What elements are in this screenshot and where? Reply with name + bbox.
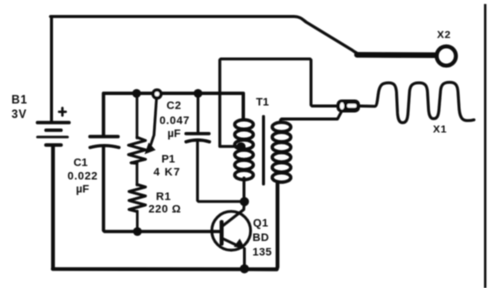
wire: X1 flexible lead squiggle bbox=[360, 82, 474, 122]
wire: battery + up to top rail, across, diagonal down to X2 lead bbox=[51, 17, 361, 123]
svg-text:µF: µF bbox=[76, 184, 89, 196]
svg-text:3V: 3V bbox=[12, 109, 27, 121]
svg-text:135: 135 bbox=[253, 246, 273, 258]
Q1 emitter lead bbox=[223, 239, 242, 248]
svg-text:Q1: Q1 bbox=[253, 218, 269, 230]
wire: P1 top lead bbox=[136, 94, 139, 139]
battery B1 bbox=[38, 123, 70, 145]
node dot centre tap bbox=[236, 142, 245, 151]
wire: C1 bottom lead and base node wire bbox=[104, 146, 220, 232]
Q1 base bar bbox=[220, 222, 224, 244]
svg-text:C2: C2 bbox=[167, 100, 182, 112]
Q1 emitter arrowhead bbox=[234, 239, 245, 249]
node dot C2 top on rail bbox=[194, 89, 203, 98]
wire: C2 top lead bbox=[197, 94, 200, 133]
battery + sign bbox=[59, 111, 66, 113]
wire: wiper lead bbox=[151, 99, 157, 146]
electrode X2 bbox=[437, 46, 456, 65]
transformer T1 primary winding bbox=[235, 120, 254, 180]
svg-text:X2: X2 bbox=[437, 29, 451, 41]
svg-text:C1: C1 bbox=[74, 157, 88, 169]
wire: thick electrode lead to X2 bbox=[357, 52, 435, 58]
transistor Q1 bbox=[212, 211, 251, 250]
capacitor C2 bbox=[186, 134, 210, 142]
wire: R1 bottom lead bbox=[136, 211, 139, 232]
svg-text:P1: P1 bbox=[162, 154, 175, 166]
wire: C2 bottom lead to collector node bbox=[198, 141, 245, 202]
svg-text:µF: µF bbox=[168, 128, 181, 140]
node dot collector junction bbox=[240, 197, 249, 206]
wire: battery - down and bottom rail to T1 secondary bbox=[53, 147, 278, 270]
wire: emitter down to bottom rail bbox=[243, 249, 246, 269]
resistor R1 zigzag bbox=[129, 185, 146, 212]
border frame right edge bbox=[484, 4, 486, 288]
wire: node rail y93 from C1 to T1 primary top bbox=[104, 93, 244, 135]
potentiometer P1 zigzag bbox=[129, 137, 146, 163]
svg-text:T1: T1 bbox=[256, 97, 269, 109]
node dot P1 top on rail bbox=[132, 89, 141, 98]
wire: primary centre tap bbox=[220, 145, 240, 148]
transformer T1 secondary winding bbox=[272, 122, 291, 182]
earphone connector (X1 plug body) bbox=[337, 100, 361, 113]
Q1 collector lead bbox=[223, 202, 245, 227]
svg-text:R1: R1 bbox=[156, 191, 171, 203]
svg-text:X1: X1 bbox=[433, 124, 447, 136]
T1 core bbox=[262, 117, 265, 185]
svg-text:0.047: 0.047 bbox=[160, 115, 190, 127]
P1 wiper arrowhead bbox=[145, 143, 156, 155]
wire: P1 to R1 lead bbox=[136, 163, 139, 186]
capacitor C1 bbox=[90, 137, 119, 148]
node: open circle wiper terminal bbox=[153, 90, 161, 98]
wire: secondary top lead to X1 connector underside bbox=[281, 113, 342, 123]
node dot emitter on bottom rail bbox=[240, 264, 249, 273]
node dot R1 bottom bbox=[133, 227, 142, 236]
svg-text:220 Ω: 220 Ω bbox=[149, 203, 182, 215]
svg-text:B1: B1 bbox=[12, 95, 28, 107]
svg-text:4 K7: 4 K7 bbox=[154, 166, 181, 178]
wire: T1 loop (center-tap to top to X1 connector) bbox=[220, 59, 337, 146]
svg-text:0.022: 0.022 bbox=[68, 170, 99, 182]
svg-text:BD: BD bbox=[253, 232, 270, 244]
wire: primary bottom lead bbox=[243, 178, 246, 201]
